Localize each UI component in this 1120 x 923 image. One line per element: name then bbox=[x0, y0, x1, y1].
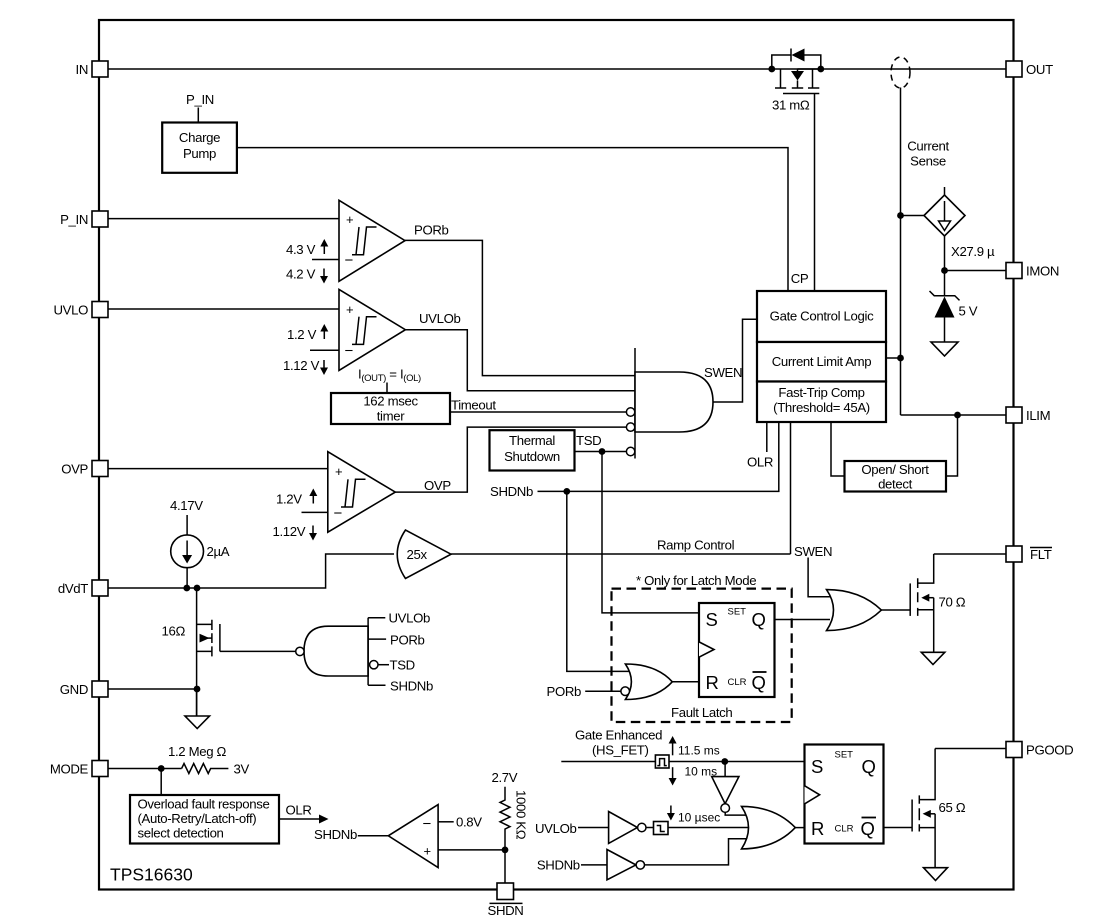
wire: U3 minus input stub bbox=[302, 511, 328, 513]
ground symbol (zener) bbox=[931, 342, 958, 356]
block: Fast-Trip Comp bbox=[757, 382, 886, 423]
wire: ramp control vertical from Fast-Trip Comp bbox=[790, 422, 792, 554]
pin P_IN bbox=[60, 211, 108, 227]
svg-text:P_IN: P_IN bbox=[60, 212, 88, 227]
svg-text:0.8V: 0.8V bbox=[456, 815, 482, 830]
svg-text:2.7V: 2.7V bbox=[492, 770, 518, 785]
label 4.3 V with up arrow bbox=[286, 239, 328, 257]
block: Current Limit Amp bbox=[757, 342, 886, 382]
svg-text:SHDNb: SHDNb bbox=[490, 484, 533, 499]
svg-text:select detection: select detection bbox=[138, 826, 224, 841]
deglitch block: 11.5ms/10ms pulse bbox=[655, 755, 669, 768]
svg-text:Open/ Short: Open/ Short bbox=[861, 462, 929, 477]
wire: charge pump output to gate control logic bbox=[237, 148, 788, 291]
svg-text:Pump: Pump bbox=[183, 146, 216, 161]
node: Q1 drain junction bbox=[768, 66, 775, 73]
svg-text:TSD: TSD bbox=[390, 658, 415, 673]
zener diode 5V clamp bbox=[930, 271, 960, 343]
ground symbol (FLT FET) bbox=[921, 652, 945, 664]
wire: IMON rail bbox=[945, 270, 1007, 272]
label 4.2 V with down arrow bbox=[286, 267, 328, 284]
AND gate U5 input bubbles (timeout, OVP, TSD) bbox=[626, 408, 634, 416]
node: dVdT junction (FET drain) bbox=[194, 585, 201, 592]
svg-text:31 mΩ: 31 mΩ bbox=[772, 98, 810, 113]
op-amp U8 SHDN comparator (left facing) bbox=[388, 805, 438, 868]
wire: current limit amp output to sense line bbox=[886, 357, 901, 359]
wire: divider to SHDN pin bbox=[504, 850, 506, 883]
label 1.2V with up arrow bbox=[276, 489, 317, 507]
wire: OLR stub from Fast-Trip Comp bbox=[766, 422, 768, 452]
wire: 10usec pulse to OR gate bbox=[668, 827, 752, 829]
pin UVLO bbox=[53, 302, 108, 318]
svg-text:5 V: 5 V bbox=[959, 304, 978, 319]
svg-text:SHDNb: SHDNb bbox=[537, 858, 580, 873]
svg-text:S: S bbox=[811, 756, 823, 777]
wire: U2 minus input stub bbox=[310, 349, 339, 351]
wire: OVP pin to OVP comparator bbox=[108, 468, 328, 470]
wire: SWEN to FLT OR gate bbox=[808, 558, 830, 597]
node: Q1 source junction bbox=[817, 66, 824, 73]
wire: UVLOb output to AND gate bbox=[405, 330, 635, 391]
block: Gate Control Logic bbox=[757, 291, 886, 342]
wire: SHDNb branch down to fault-latch NOR bbox=[567, 491, 630, 671]
node: dVdT junction (current source) bbox=[183, 585, 190, 592]
current source I1 2uA bbox=[171, 515, 204, 588]
wire: Qb output to PGOOD FET gate bbox=[884, 827, 913, 829]
svg-text:−: − bbox=[423, 816, 432, 833]
inverter U14 SHDNb bbox=[607, 850, 645, 880]
svg-text:SET: SET bbox=[835, 750, 854, 761]
transistor Q3 FLT FET 70 Ohm bbox=[910, 554, 934, 652]
wire: SHDNb to inverter bbox=[581, 864, 607, 866]
node: MODE junction bbox=[158, 765, 165, 772]
node: current limit amp output junction bbox=[897, 355, 904, 362]
NAND input UVLOb bbox=[368, 611, 430, 626]
svg-text:OUT: OUT bbox=[1026, 62, 1053, 77]
pin GND bbox=[60, 681, 108, 697]
svg-text:+: + bbox=[346, 212, 354, 227]
node: IMON junction bbox=[941, 267, 948, 274]
svg-text:UVLOb: UVLOb bbox=[535, 821, 577, 836]
svg-text:Ramp Control: Ramp Control bbox=[657, 538, 735, 553]
svg-text:4.3 V: 4.3 V bbox=[286, 242, 316, 257]
svg-text:FLT: FLT bbox=[1030, 547, 1052, 562]
svg-text:(Auto-Retry/Latch-off): (Auto-Retry/Latch-off) bbox=[138, 811, 257, 826]
svg-text:+: + bbox=[335, 464, 343, 479]
svg-text:R: R bbox=[811, 818, 824, 839]
wire: TSD to AND gate bubble bbox=[575, 451, 627, 453]
wire: fault latch Q output to FLT OR gate bbox=[775, 619, 831, 621]
wire: open/short detect left link bbox=[831, 422, 845, 476]
svg-text:P_IN: P_IN bbox=[186, 92, 214, 107]
svg-text:16Ω: 16Ω bbox=[162, 624, 186, 639]
svg-text:(HS_FET): (HS_FET) bbox=[592, 743, 649, 758]
svg-text:1.12 V: 1.12 V bbox=[283, 358, 320, 373]
pin IMON bbox=[1006, 263, 1059, 279]
wire: open/short detect right link to ILIM bbox=[946, 415, 958, 476]
svg-text:Shutdown: Shutdown bbox=[504, 449, 560, 464]
label OLR with arrow bbox=[279, 803, 329, 824]
svg-text:+: + bbox=[424, 844, 432, 859]
svg-text:Timeout: Timeout bbox=[451, 398, 496, 413]
current probe dashed ellipse bbox=[891, 57, 910, 88]
svg-text:OLR: OLR bbox=[286, 803, 312, 818]
svg-text:GND: GND bbox=[60, 682, 88, 697]
wire: MODE pin rail bbox=[108, 768, 182, 770]
deglitch block: 10 usec pulse bbox=[654, 822, 669, 835]
block: Thermal Shutdown bbox=[490, 430, 575, 470]
svg-text:Q: Q bbox=[862, 756, 876, 777]
wire: gate enhanced line to deglitch bbox=[561, 761, 655, 763]
svg-text:Fast-Trip Comp: Fast-Trip Comp bbox=[778, 385, 864, 400]
label 10 usec with down arrow bbox=[667, 806, 720, 825]
label Gate Enhanced (HS_FET) bbox=[575, 728, 662, 758]
resistor R2 1000 kOhm bbox=[500, 787, 529, 850]
transistor Q1 31 mOhm power FET: contacts and channel bbox=[775, 69, 819, 291]
label P_IN above charge pump bbox=[186, 92, 214, 123]
svg-text:Q: Q bbox=[752, 672, 766, 693]
op-amp U1 POR comparator bbox=[339, 200, 405, 281]
svg-text:dVdT: dVdT bbox=[58, 581, 88, 596]
transistor Q2 16 Ohm dVdT FET bbox=[197, 588, 296, 716]
wire: inverter to OR gate bbox=[645, 839, 751, 865]
wire: inverter to 10usec pulse bbox=[646, 827, 654, 829]
pin PGOOD bbox=[1006, 742, 1073, 758]
svg-text:(Threshold= 45A): (Threshold= 45A) bbox=[773, 400, 870, 415]
svg-text:PORb: PORb bbox=[414, 223, 449, 238]
svg-text:SHDNb: SHDNb bbox=[314, 827, 357, 842]
block: 162 msec timer bbox=[331, 393, 450, 424]
svg-text:1.12V: 1.12V bbox=[273, 524, 306, 539]
ground symbol (dVdT FET source) bbox=[185, 689, 210, 729]
svg-text:S: S bbox=[706, 609, 718, 630]
svg-text:Charge: Charge bbox=[179, 130, 220, 145]
pin OVP bbox=[61, 461, 108, 477]
svg-text:Gate Enhanced: Gate Enhanced bbox=[575, 728, 662, 743]
wire: MODE to overload detect box bbox=[160, 769, 162, 796]
svg-text:1000 KΩ: 1000 KΩ bbox=[514, 790, 529, 840]
wire: SWEN output to Gate Control Logic bbox=[713, 319, 757, 402]
svg-text:CP: CP bbox=[791, 271, 809, 286]
svg-text:4.17V: 4.17V bbox=[170, 498, 203, 513]
ground symbol (PGOOD FET) bbox=[924, 868, 948, 881]
wire: IN rail (IN pin to OUT pin along y=69) bbox=[108, 68, 1006, 70]
svg-text:UVLO: UVLO bbox=[53, 303, 88, 318]
wire: 25x output ramp control line bbox=[451, 553, 791, 555]
OR gate U10 fault latch reset (NOR w/ inverted PORb input) bbox=[621, 664, 672, 700]
wire: OR output to FLT FET gate bbox=[881, 609, 910, 611]
label 10 ms with down arrow bbox=[669, 765, 718, 786]
pin SHDN (active low, bottom) bbox=[488, 883, 524, 918]
svg-text:Q: Q bbox=[752, 609, 766, 630]
svg-text:ILIM: ILIM bbox=[1026, 408, 1050, 423]
pin IN bbox=[76, 61, 109, 77]
svg-text:SHDN: SHDN bbox=[488, 903, 524, 918]
svg-text:detect: detect bbox=[878, 477, 913, 492]
wire: current sense tap vertical bbox=[900, 88, 902, 416]
label I(OUT) = I(OL) bbox=[358, 367, 421, 394]
svg-text:Fault Latch: Fault Latch bbox=[671, 705, 732, 720]
NAND input TSD (inverted) bbox=[370, 658, 415, 673]
diode D2 body diode of Q1 bbox=[791, 69, 821, 88]
block: Charge Pump bbox=[162, 123, 237, 173]
inverter U12 (down) bbox=[712, 762, 746, 816]
wire: U8 plus input to divider bbox=[438, 849, 505, 851]
op-amp U3 OVP comparator bbox=[328, 452, 396, 533]
svg-text:25x: 25x bbox=[407, 547, 428, 562]
node: divider junction bbox=[502, 847, 509, 854]
node: GND junction bbox=[194, 686, 201, 693]
pin MODE bbox=[50, 761, 108, 777]
svg-text:70 Ω: 70 Ω bbox=[939, 595, 966, 610]
svg-text:IMON: IMON bbox=[1026, 264, 1059, 279]
pin FLT (active low) bbox=[1006, 546, 1052, 562]
svg-text:65 Ω: 65 Ω bbox=[939, 800, 966, 815]
transistor Q4 PGOOD FET 65 Ohm bbox=[912, 749, 935, 868]
diode D1 blocking diode on top of Q1 bbox=[772, 49, 821, 70]
wire: tap to current-sense source bbox=[901, 215, 925, 217]
svg-text:MODE: MODE bbox=[50, 762, 89, 777]
svg-text:UVLOb: UVLOb bbox=[389, 611, 431, 626]
svg-text:1.2 Meg Ω: 1.2 Meg Ω bbox=[168, 744, 227, 759]
wire: deglitch to PGOOD latch S bbox=[669, 761, 805, 763]
node: TSD junction bbox=[599, 448, 606, 455]
svg-text:OLR: OLR bbox=[747, 455, 773, 470]
dashed box: fault latch region bbox=[612, 589, 792, 722]
svg-text:SWEN: SWEN bbox=[794, 544, 832, 559]
pin ILIM bbox=[1006, 407, 1050, 423]
svg-text:timer: timer bbox=[377, 409, 406, 424]
svg-text:CLR: CLR bbox=[728, 677, 747, 688]
NAND gate U7 (left facing) bbox=[296, 618, 368, 686]
svg-text:11.5 ms: 11.5 ms bbox=[678, 744, 720, 758]
svg-text:3V: 3V bbox=[234, 762, 250, 777]
NAND input SHDNb bbox=[368, 679, 433, 694]
AND gate U5 body bbox=[635, 372, 713, 432]
amplifier U6 25x bbox=[397, 530, 451, 579]
wire: TSD branch to fault latch S input bbox=[602, 452, 699, 613]
pin OUT bbox=[1006, 61, 1053, 77]
svg-text:Overload fault response: Overload fault response bbox=[138, 797, 270, 812]
svg-text:PGOOD: PGOOD bbox=[1026, 743, 1073, 758]
svg-text:10 µsec: 10 µsec bbox=[678, 811, 720, 825]
flip-flop U16 PGOOD latch bbox=[805, 745, 884, 844]
svg-text:CLR: CLR bbox=[835, 824, 854, 835]
svg-text:Sense: Sense bbox=[910, 154, 946, 169]
wire: P_IN pin to POR comparator bbox=[108, 218, 339, 220]
svg-text:SWEN: SWEN bbox=[704, 365, 742, 380]
node: S line junction bbox=[721, 758, 728, 765]
svg-text:UVLOb: UVLOb bbox=[419, 311, 461, 326]
flip-flop U9 fault latch bbox=[699, 603, 775, 697]
svg-text:SHDNb: SHDNb bbox=[390, 679, 433, 694]
wire: NOR output to R input bbox=[672, 681, 699, 683]
svg-text:Gate Control Logic: Gate Control Logic bbox=[770, 309, 874, 324]
svg-text:TPS16630: TPS16630 bbox=[110, 865, 193, 885]
svg-text:TSD: TSD bbox=[576, 433, 601, 448]
svg-text:PORb: PORb bbox=[390, 633, 425, 648]
wire: PGOOD FET drain to PGOOD pin bbox=[935, 748, 1006, 750]
block: Overload fault response select detection bbox=[130, 795, 279, 844]
wire: ILIM rail bbox=[901, 414, 1007, 416]
svg-text:IN: IN bbox=[76, 62, 89, 77]
svg-text:1.2 V: 1.2 V bbox=[287, 327, 317, 342]
svg-text:OVP: OVP bbox=[424, 478, 451, 493]
svg-text:PORb: PORb bbox=[547, 684, 582, 699]
wire: SHDNb comparator output bbox=[358, 835, 389, 837]
label 1.12 V with down arrow bbox=[283, 358, 328, 375]
AND gate U5 (SWEN) input bar bbox=[634, 348, 636, 459]
NAND input PORb bbox=[368, 633, 424, 648]
svg-text:Q: Q bbox=[861, 818, 875, 839]
block: Open/ Short detect bbox=[845, 461, 947, 492]
OR gate U11 (FLT driver) bbox=[827, 590, 882, 631]
wire: dVdT pin rail bbox=[108, 554, 394, 588]
wire: UVLOb to inverter bbox=[578, 827, 609, 829]
wire: GND pin rail bbox=[108, 688, 197, 690]
op-amp U2 UVLO comparator bbox=[339, 289, 405, 370]
svg-text:162 msec: 162 msec bbox=[363, 394, 418, 409]
svg-text:+: + bbox=[346, 302, 354, 317]
wire: PORb to NOR bubble bbox=[585, 690, 621, 692]
wire: UVLO pin to UVLO comparator bbox=[108, 308, 339, 310]
node: ILIM junction bbox=[954, 412, 961, 419]
wire: U8 minus input to 0.8V bbox=[438, 821, 454, 823]
wire: FLT FET drain to FLT pin bbox=[934, 553, 1006, 555]
svg-text:SET: SET bbox=[728, 607, 747, 618]
wire: source to IMON junction bbox=[944, 236, 946, 271]
label 11.5 ms with up arrow bbox=[669, 736, 720, 758]
node: SHDNb junction bbox=[563, 488, 570, 495]
pin dVdT bbox=[58, 580, 108, 596]
label 1.12V with down arrow bbox=[273, 524, 318, 541]
svg-text:* Only for Latch Mode: * Only for Latch Mode bbox=[636, 573, 756, 588]
IC boundary box bbox=[99, 20, 1014, 890]
svg-text:Thermal: Thermal bbox=[509, 433, 555, 448]
svg-text:4.2 V: 4.2 V bbox=[286, 267, 316, 282]
wire: U1 minus input stub bbox=[312, 259, 339, 261]
node: current sense tap junction bbox=[897, 212, 904, 219]
svg-text:OVP: OVP bbox=[61, 462, 88, 477]
label 1.2 V with up arrow bbox=[287, 324, 328, 342]
wire: timeout to AND gate bubble bbox=[450, 411, 627, 413]
resistor R1 1.2 Meg bbox=[168, 744, 228, 774]
wire: OVP output up to AND gate bubble bbox=[395, 427, 626, 492]
wire: OR output to R input bbox=[795, 827, 804, 829]
svg-text:Current: Current bbox=[907, 139, 949, 154]
svg-text:Current Limit Amp: Current Limit Amp bbox=[772, 354, 872, 369]
svg-text:R: R bbox=[706, 672, 719, 693]
svg-text:1.2V: 1.2V bbox=[276, 492, 302, 507]
wire: PORb output to AND gate bbox=[405, 240, 635, 375]
svg-text:2µA: 2µA bbox=[207, 544, 230, 559]
wire: SHDNb net from Fast-Trip Comp down and left bbox=[538, 422, 779, 491]
svg-text:X27.9 µ: X27.9 µ bbox=[951, 244, 995, 259]
OR gate U15 (PGOOD latch reset) bbox=[742, 806, 796, 849]
inverter U13 UVLOb bbox=[609, 812, 646, 844]
current sense dependent source (diamond) bbox=[924, 187, 965, 236]
